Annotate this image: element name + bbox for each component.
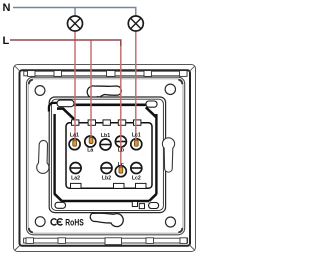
mechanism corner tab bottom-left	[55, 202, 66, 208]
plate corner seam bottom-left	[29, 229, 32, 233]
mechanism metal frame left bar	[53, 114, 55, 194]
plate corner seam top-right	[179, 80, 182, 84]
terminal La	[85, 136, 96, 147]
svg-text:L: L	[3, 35, 10, 47]
svg-text:Lc1: Lc1	[132, 133, 141, 139]
plate corner seam bottom-right	[179, 229, 182, 233]
screw bottom-right	[166, 217, 176, 227]
mechanism outer ring	[49, 97, 165, 213]
lamp 2	[128, 16, 143, 31]
keyhole slot left	[37, 140, 49, 173]
svg-text:La1: La1	[70, 133, 79, 139]
svg-text:La: La	[87, 148, 93, 154]
svg-text:Lb: Lb	[118, 148, 124, 154]
mechanism metal frame top bar	[74, 104, 147, 107]
terminal La1	[69, 139, 80, 150]
wire live line L	[10, 40, 121, 46]
terminal insert Lc1	[135, 140, 139, 146]
mechanism corner claw top-left	[49, 103, 57, 112]
mechanism metal frame bottom bar	[62, 200, 150, 203]
terminal La2 (screw)	[70, 163, 81, 174]
terminal insert Lc	[119, 167, 123, 173]
wire red L corner to Lc	[120, 40, 122, 170]
bottom clip rail	[24, 238, 188, 245]
screw top-right	[165, 84, 175, 94]
terminal block top notches	[72, 120, 141, 125]
svg-text:Lb2: Lb2	[102, 176, 111, 182]
wire red lamp1 to La1	[74, 31, 76, 142]
mounting plate outline	[27, 77, 185, 235]
svg-text:Lc: Lc	[118, 162, 124, 168]
mechanism corner tab bottom-right	[149, 203, 159, 209]
terminal Lb1 (screw)	[100, 139, 111, 150]
terminal block body	[66, 123, 152, 189]
mechanism bottom small tabs	[132, 202, 137, 207]
switch frame inner thick edge	[20, 70, 191, 246]
cable notch bottom	[90, 213, 123, 226]
terminal block bottom notches	[71, 183, 147, 188]
switch frame outer edge	[14, 65, 196, 252]
cable notch top	[87, 86, 121, 98]
mechanism corner claw bottom-left	[54, 194, 62, 201]
mechanism corner claw bottom-right	[149, 194, 156, 201]
frame corner bevels	[15, 66, 196, 251]
wire red L to La	[90, 40, 92, 140]
terminal Lb2 (screw)	[101, 163, 112, 174]
terminal Lc2 (screw)	[131, 163, 142, 174]
svg-text:Lb1: Lb1	[101, 133, 110, 139]
screw bottom-left	[35, 217, 45, 227]
terminal Lb (screw)	[115, 136, 126, 147]
mechanism corner tab top-left	[57, 100, 74, 107]
screw top-left	[35, 86, 45, 96]
svg-text:La2: La2	[71, 176, 80, 182]
terminal insert La	[89, 138, 93, 144]
wire lamp1 drop from N	[74, 8, 76, 17]
wire neutral line N	[13, 8, 136, 17]
svg-text:Lc2: Lc2	[132, 176, 141, 182]
mechanism corner tab top-right	[146, 101, 157, 107]
terminal Lc1	[131, 139, 142, 150]
terminal insert La1	[73, 140, 77, 146]
keyhole slot right	[162, 138, 174, 172]
plate corner seam top-left	[29, 80, 32, 84]
svg-text:RoHS: RoHS	[65, 217, 84, 227]
svg-text:N: N	[3, 2, 11, 14]
top clip rail	[24, 71, 187, 77]
lamp 1	[68, 16, 83, 31]
mechanism corner claw top-right	[146, 107, 157, 117]
mechanism metal frame right bar	[155, 114, 157, 194]
terminal Lc	[115, 166, 126, 177]
CE mark	[51, 219, 62, 225]
wire red lamp2 to Lc1	[135, 31, 137, 142]
